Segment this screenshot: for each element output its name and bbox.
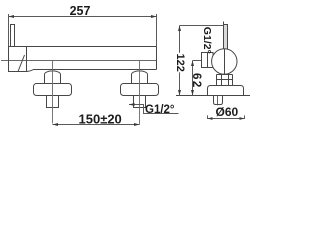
svg-text:122: 122 bbox=[174, 54, 186, 72]
svg-text:150±20: 150±20 bbox=[79, 111, 122, 126]
svg-text:257: 257 bbox=[70, 4, 91, 18]
svg-text:G1/2°: G1/2° bbox=[201, 27, 213, 54]
svg-text:62: 62 bbox=[190, 73, 202, 89]
svg-text:G1/2°: G1/2° bbox=[145, 104, 175, 116]
svg-text:Ø60: Ø60 bbox=[216, 105, 239, 119]
